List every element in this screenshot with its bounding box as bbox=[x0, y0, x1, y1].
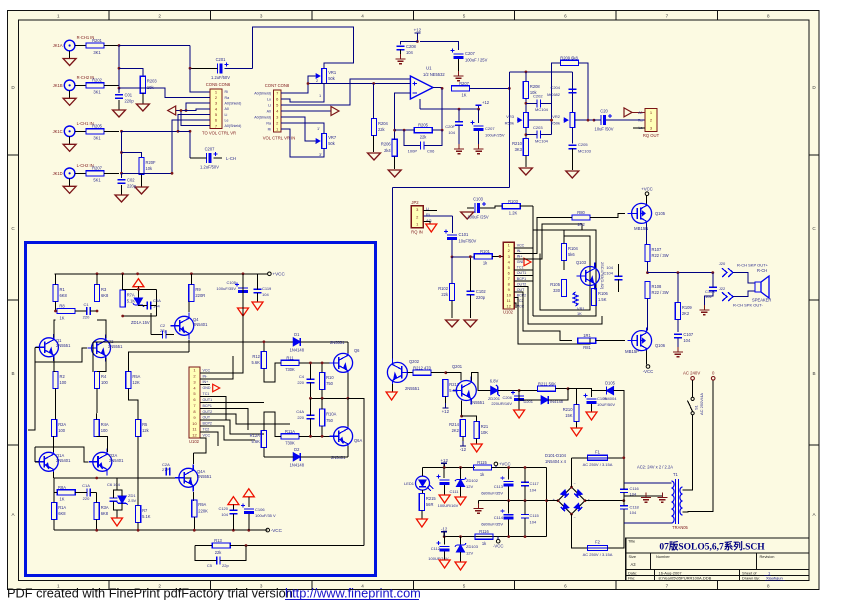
resistor R207b bbox=[451, 81, 469, 98]
svg-text:07版SOLO5,6,7系列.SCH: 07版SOLO5,6,7系列.SCH bbox=[659, 540, 765, 552]
svg-text:1/2 NE5532: 1/2 NE5532 bbox=[423, 72, 445, 77]
svg-text:-12: -12 bbox=[460, 447, 467, 452]
wire +12 to C207b bbox=[420, 42, 459, 51]
wire C112 top bbox=[444, 537, 446, 545]
svg-text:104: 104 bbox=[221, 512, 228, 517]
junction bb rail a bbox=[96, 272, 99, 275]
capacitor C4 bbox=[307, 379, 315, 382]
wire R203 ground bbox=[142, 93, 144, 104]
wire CON5 pin2 bbox=[119, 88, 210, 98]
wire R10 top bbox=[321, 363, 323, 373]
junction R205 left bbox=[403, 129, 406, 132]
wire C111 bot bbox=[444, 485, 446, 495]
svg-text:10UF/50V: 10UF/50V bbox=[597, 402, 615, 407]
wire JK1C stub bbox=[75, 130, 86, 132]
svg-text:Sheet of: Sheet of bbox=[742, 570, 757, 575]
svg-text:2N5551: 2N5551 bbox=[405, 386, 420, 391]
svg-text:100: 100 bbox=[58, 428, 66, 433]
wire R101 left bbox=[452, 256, 474, 258]
junction bbot e bbox=[247, 529, 250, 532]
vcc arrow C120 bbox=[228, 497, 239, 505]
wire C20 right bbox=[606, 119, 645, 121]
junction ZD201 node bbox=[518, 389, 521, 392]
svg-text:L-CH: L-CH bbox=[226, 156, 236, 161]
wire D1 right bbox=[300, 341, 348, 343]
capacitor C4A bbox=[307, 415, 315, 418]
wire R4-R4A bbox=[96, 389, 98, 420]
svg-text:BCP1: BCP1 bbox=[203, 404, 212, 408]
IC U102 bbox=[503, 242, 526, 314]
resistor R109 bbox=[675, 303, 692, 320]
svg-text:R207: R207 bbox=[92, 166, 103, 171]
svg-text:Ri: Ri bbox=[225, 90, 229, 94]
svg-text:10uF/50V: 10uF/50V bbox=[459, 239, 477, 244]
wire bridge bottom bbox=[572, 514, 588, 548]
svg-text:C02: C02 bbox=[127, 178, 135, 183]
resistor R13 bbox=[212, 538, 230, 555]
resistor R3 bbox=[94, 285, 109, 302]
svg-text:Q202: Q202 bbox=[409, 359, 420, 364]
resistor R12A bbox=[250, 431, 267, 448]
svg-text:A0(Shield): A0(Shield) bbox=[254, 91, 271, 95]
svg-text:R101: R101 bbox=[480, 249, 491, 254]
junction zd top bbox=[137, 288, 140, 291]
svg-text:10k: 10k bbox=[146, 166, 154, 171]
wire Q2 em bbox=[97, 358, 106, 371]
wire into pin1 bbox=[190, 68, 210, 92]
wire JP2in pin3 bbox=[423, 222, 430, 225]
label C2 27p bbox=[160, 323, 167, 333]
svg-text:VR2: VR2 bbox=[552, 114, 561, 119]
wire CON7 A0 right bbox=[281, 110, 331, 112]
svg-text:OUT: OUT bbox=[517, 288, 525, 292]
wire to Q201 bbox=[446, 373, 461, 381]
capacitor C1A bbox=[87, 488, 90, 496]
wire R101 right bbox=[492, 255, 503, 257]
labels C113 bbox=[481, 484, 504, 496]
wire U101 pin11 bbox=[200, 432, 218, 446]
label AC2 24V bbox=[637, 465, 673, 470]
blue box outline bbox=[26, 243, 376, 576]
svg-text:C6A: C6A bbox=[153, 298, 161, 303]
svg-text:2: 2 bbox=[316, 78, 318, 83]
wire R7A top bbox=[122, 274, 124, 290]
transistor Q1A bbox=[35, 448, 71, 475]
junction bb rail b bbox=[121, 272, 124, 275]
svg-text:D105: D105 bbox=[605, 381, 616, 386]
wire sec vertical c bbox=[623, 509, 625, 523]
capacitor C117 bbox=[521, 482, 529, 485]
net arrow RQOUT bbox=[624, 108, 632, 117]
wire AC to S1 bbox=[692, 380, 694, 397]
svg-text:22k: 22k bbox=[420, 134, 428, 139]
svg-text:5.1K: 5.1K bbox=[142, 514, 151, 519]
connector CON5 CON6 bbox=[202, 82, 241, 136]
wire feed to C101 bbox=[451, 216, 453, 233]
labels C117 bbox=[530, 481, 540, 493]
pot VR1 terminal labels bbox=[316, 78, 321, 98]
svg-text:R4A: R4A bbox=[101, 422, 109, 427]
svg-text:R9A: R9A bbox=[198, 502, 206, 507]
svg-text:http://www.fineprint.com: http://www.fineprint.com bbox=[285, 585, 421, 600]
svg-text:C5: C5 bbox=[207, 563, 213, 568]
wire C102 gnd bbox=[469, 295, 471, 318]
resistor R211 bbox=[538, 381, 557, 391]
wire D2 left bbox=[264, 456, 293, 458]
speaker symbol bbox=[752, 268, 771, 303]
svg-text:R20F: R20F bbox=[146, 160, 157, 165]
svg-text:R50k: R50k bbox=[505, 121, 514, 126]
svg-text:50k: 50k bbox=[328, 141, 336, 146]
svg-text:C205: C205 bbox=[578, 142, 588, 147]
svg-text:J20: J20 bbox=[719, 261, 726, 266]
junction sec mid bbox=[622, 499, 625, 502]
wire C120 bot bbox=[232, 514, 234, 530]
junction R209 right bbox=[587, 119, 590, 122]
svg-text:Xiaofujun: Xiaofujun bbox=[766, 576, 783, 581]
wire C104 bot lead bbox=[618, 280, 620, 292]
svg-text:IN-: IN- bbox=[517, 249, 523, 253]
capacitor C118 bbox=[620, 506, 628, 509]
svg-text:Q6A: Q6A bbox=[354, 438, 362, 443]
svg-text:R105: R105 bbox=[550, 282, 561, 287]
wire C114 bot bbox=[508, 520, 510, 537]
wire C106 bot bbox=[248, 514, 250, 530]
ground below C102 bbox=[464, 320, 477, 327]
svg-text:R207: R207 bbox=[459, 81, 470, 86]
wire C1A right bbox=[90, 491, 96, 493]
wire R7 top bbox=[137, 437, 139, 506]
wire Q2A base bbox=[35, 447, 88, 462]
capacitor C111 bbox=[437, 475, 450, 486]
svg-text:104: 104 bbox=[153, 304, 160, 309]
connector J22 arrows bbox=[719, 286, 733, 301]
svg-text:1': 1' bbox=[317, 126, 320, 131]
capacitor C2A bbox=[166, 467, 169, 475]
resistor R1A bbox=[52, 503, 67, 520]
svg-text:12: 12 bbox=[506, 304, 511, 309]
svg-text:+VCC: +VCC bbox=[272, 272, 285, 277]
junction bbot c bbox=[193, 529, 196, 532]
wire L-CH1 right bbox=[122, 130, 191, 132]
resistor R9A bbox=[192, 500, 208, 517]
junction Q201 em bbox=[460, 415, 463, 418]
wire node to R211 bbox=[519, 390, 538, 392]
capacitor C115 bbox=[521, 515, 529, 518]
wire R109 top bbox=[677, 273, 679, 303]
svg-text:220p: 220p bbox=[476, 295, 486, 300]
wire C207b down bbox=[458, 59, 460, 74]
junction C20 left bbox=[593, 119, 596, 122]
wire drive loop K bbox=[514, 303, 516, 308]
svg-text:1R1: 1R1 bbox=[583, 333, 591, 338]
wire -12 stem bbox=[443, 532, 445, 537]
svg-text:VCC: VCC bbox=[203, 368, 211, 372]
wire U101 pin10 bbox=[200, 426, 255, 440]
svg-text:6K8: 6K8 bbox=[101, 511, 109, 516]
svg-text:R203: R203 bbox=[147, 79, 158, 84]
wire R103 right bbox=[520, 205, 533, 207]
wire C101 down bbox=[451, 240, 453, 257]
wire C202cap lead bbox=[121, 173, 123, 178]
wire R9 top bbox=[190, 274, 192, 285]
capacitor C20F bbox=[455, 122, 463, 125]
earth ground C207c bbox=[474, 144, 484, 154]
junction bot -12 bbox=[443, 535, 446, 538]
power port -12 R214 bbox=[460, 441, 467, 452]
svg-text:R106: R106 bbox=[598, 291, 609, 296]
resistor R8A bbox=[57, 485, 75, 502]
svg-text:D1: D1 bbox=[294, 332, 300, 337]
labels C112 bbox=[428, 546, 449, 561]
svg-text:MC103: MC103 bbox=[578, 149, 592, 154]
wire ps bottom rail bbox=[444, 536, 546, 538]
wire C5 left bbox=[195, 546, 217, 561]
wire output to speaker bbox=[648, 272, 713, 274]
labels C115 bbox=[530, 513, 540, 525]
svg-text:7: 7 bbox=[666, 13, 669, 18]
capacitor C202in bbox=[118, 178, 137, 189]
wire R5A top bbox=[128, 352, 189, 372]
junction bridge R bbox=[584, 499, 587, 502]
svg-text:R107: R107 bbox=[652, 247, 663, 252]
junction bb rail c bbox=[136, 272, 139, 275]
svg-text:Q105: Q105 bbox=[655, 211, 666, 216]
svg-text:100P: 100P bbox=[408, 149, 418, 154]
wire mid row bbox=[311, 397, 348, 399]
junction C101 node bbox=[451, 256, 454, 259]
svg-text:ZD102: ZD102 bbox=[466, 478, 479, 483]
junction R208 top bbox=[525, 71, 528, 74]
transistor Q6 bbox=[330, 340, 361, 376]
wire R11 left bbox=[264, 363, 281, 382]
junction L-CH2 bbox=[120, 172, 123, 175]
wire CON5 pin5 bbox=[122, 114, 211, 131]
wire top rail bbox=[252, 27, 353, 69]
resistor R1 bbox=[53, 285, 68, 302]
wire C117 bot bbox=[524, 486, 526, 501]
svg-text:1.2uF/50V: 1.2uF/50V bbox=[200, 165, 219, 170]
wire +12 stem bbox=[416, 33, 418, 42]
power port +12 ps bbox=[440, 458, 448, 469]
svg-text:104: 104 bbox=[683, 338, 691, 343]
svg-text:JK1D: JK1D bbox=[53, 171, 63, 176]
svg-text:22k: 22k bbox=[215, 550, 223, 555]
svg-text:R13: R13 bbox=[214, 538, 222, 543]
transformer T1 bbox=[672, 472, 689, 530]
svg-text:R7: R7 bbox=[142, 508, 148, 513]
wire C1 right bbox=[90, 310, 97, 312]
junction R205 right bbox=[441, 129, 444, 132]
svg-text:F2: F2 bbox=[595, 539, 601, 544]
svg-text:R1A: R1A bbox=[58, 505, 66, 510]
svg-text:VCC: VCC bbox=[203, 433, 211, 437]
labels C206 bbox=[491, 395, 512, 406]
svg-text:2N5401: 2N5401 bbox=[56, 458, 71, 463]
wire base row Q6A bbox=[311, 435, 334, 437]
svg-text:C119: C119 bbox=[262, 286, 272, 291]
wire VR7 bottom bbox=[281, 129, 324, 157]
wire drive loop A bbox=[514, 206, 533, 248]
svg-text:C207: C207 bbox=[465, 51, 476, 56]
resistor R4 bbox=[94, 372, 108, 389]
wire drive loop H bbox=[514, 287, 602, 325]
labels C111 bbox=[438, 489, 460, 508]
svg-text:CON5 CON6: CON5 CON6 bbox=[206, 82, 231, 87]
wire Q4A em bbox=[192, 492, 194, 501]
vcc arrow C106 bbox=[243, 489, 254, 497]
junction spk tap bbox=[677, 271, 680, 274]
svg-text:C105: C105 bbox=[226, 280, 236, 285]
svg-text:R9: R9 bbox=[195, 287, 201, 292]
svg-text:10K: 10K bbox=[481, 430, 489, 435]
ground arrow R210p bbox=[571, 428, 582, 436]
power port +12 opamp supply bbox=[420, 99, 490, 109]
labels C106 bbox=[255, 507, 276, 518]
wire trans sec bot bbox=[683, 380, 714, 512]
wire R210p top bbox=[568, 389, 577, 405]
svg-text:PDF created with FinePrint pdf: PDF created with FinePrint pdfFactory tr… bbox=[7, 585, 293, 600]
wire R7 bot bbox=[137, 523, 139, 531]
svg-text:1.2uF/50V: 1.2uF/50V bbox=[211, 75, 230, 80]
capacitor C205t bbox=[568, 145, 576, 148]
labels VR3 bbox=[505, 114, 515, 126]
diode D2 bbox=[290, 447, 305, 468]
svg-text:R2: R2 bbox=[60, 374, 66, 379]
capacitor C207 1.2uF bbox=[200, 147, 219, 170]
svg-text:R-CH SPK OUT-: R-CH SPK OUT- bbox=[733, 303, 763, 308]
wire R202 right bbox=[104, 84, 119, 86]
wire C105 top bbox=[242, 274, 244, 286]
wire R213 bot bbox=[444, 397, 446, 404]
wire opamp out bbox=[433, 87, 442, 90]
resistor R202 bbox=[86, 78, 104, 95]
svg-text:JK1B: JK1B bbox=[53, 83, 63, 88]
wire R12A bot bbox=[263, 448, 265, 457]
junction base row b bbox=[321, 362, 324, 365]
ground arrow C119 bbox=[252, 302, 263, 310]
svg-text:2N5551: 2N5551 bbox=[56, 343, 71, 348]
wire R209 left vert bbox=[552, 63, 561, 135]
wire U101 pin5 bbox=[200, 397, 226, 421]
svg-text:104: 104 bbox=[262, 292, 269, 297]
wire C103 to R103 bbox=[480, 206, 502, 208]
wire bridge right bbox=[585, 500, 624, 502]
svg-text:Number: Number bbox=[656, 554, 671, 559]
svg-text:R201: R201 bbox=[92, 38, 103, 43]
svg-text:2SC4793(D-82): 2SC4793(D-82) bbox=[600, 262, 605, 290]
resistor R212 bbox=[413, 365, 432, 375]
svg-text:A3: A3 bbox=[631, 562, 637, 567]
junction C1 right bbox=[96, 310, 99, 313]
resistor R215 bbox=[419, 494, 436, 511]
transistor Q4 bbox=[171, 312, 208, 339]
svg-text:C4A: C4A bbox=[296, 409, 304, 414]
wire VR3 bot bbox=[525, 128, 527, 139]
svg-text:1K: 1K bbox=[59, 497, 64, 502]
svg-text:100uF /25V: 100uF /25V bbox=[467, 214, 488, 219]
connector J20 arrows bbox=[719, 261, 733, 277]
resistor R21x bbox=[474, 422, 489, 439]
svg-text:R5: R5 bbox=[142, 422, 148, 427]
wire C119 gnd bbox=[257, 293, 259, 302]
wire drive loop F bbox=[514, 275, 533, 277]
svg-text:220R: 220R bbox=[195, 293, 205, 298]
wire JK1A stub bbox=[75, 45, 86, 47]
wire JK1D stub bbox=[75, 172, 86, 174]
wire C20 left bbox=[594, 119, 601, 121]
svg-text:-VCC: -VCC bbox=[493, 543, 504, 548]
wire R8 left bbox=[56, 302, 58, 312]
svg-text:12V: 12V bbox=[466, 551, 473, 556]
svg-text:C203: C203 bbox=[533, 125, 543, 130]
junction mid row b bbox=[321, 397, 324, 400]
svg-text:IN-: IN- bbox=[203, 374, 209, 378]
wire C4 bot bbox=[310, 383, 312, 399]
resistor R208 bbox=[523, 82, 540, 99]
power port -VCC Q106 bbox=[646, 365, 650, 369]
svg-text:1: 1 bbox=[57, 13, 60, 18]
label C4 220 bbox=[297, 374, 304, 385]
svg-text:Date:: Date: bbox=[628, 570, 637, 575]
wire R208 top bbox=[525, 72, 527, 81]
ground below JK1D bbox=[63, 186, 76, 193]
svg-text:1: 1 bbox=[319, 93, 321, 98]
labels C120 bbox=[218, 506, 228, 517]
wire D2 right bbox=[300, 456, 348, 458]
junction rail ZD102 bbox=[459, 466, 462, 469]
wire R201 right bbox=[104, 45, 119, 47]
transistor Q103 bbox=[577, 263, 600, 290]
junction R12 top bbox=[263, 340, 266, 343]
wire R214 bot bbox=[462, 437, 464, 443]
wire C202t left bbox=[526, 102, 537, 104]
wire F2 right bbox=[608, 523, 624, 548]
svg-text:C118: C118 bbox=[630, 505, 640, 510]
wire R2-R2A bbox=[55, 389, 57, 420]
wire jack1 to drop bbox=[119, 45, 190, 47]
svg-text:LED1: LED1 bbox=[404, 481, 415, 486]
svg-text:D101-D104: D101-D104 bbox=[545, 453, 567, 458]
wire D201 right bbox=[548, 389, 568, 400]
wire R20F ground bbox=[141, 175, 143, 188]
svg-text:OUT2: OUT2 bbox=[203, 410, 213, 414]
capacitor C114 bbox=[501, 509, 514, 519]
junction bbot b bbox=[137, 529, 140, 532]
junction R-CH1 bbox=[118, 44, 121, 47]
junction V+ b bbox=[477, 108, 480, 111]
junction C102 top bbox=[469, 255, 472, 258]
svg-text:16-Aug-2007: 16-Aug-2007 bbox=[659, 570, 683, 575]
svg-text:C204: C204 bbox=[550, 85, 560, 90]
resistor R12 bbox=[251, 352, 266, 369]
label F1 rating bbox=[583, 462, 613, 467]
svg-text:Size: Size bbox=[629, 554, 637, 559]
wire ZD103 top bbox=[460, 537, 462, 545]
junction mid a bbox=[95, 477, 98, 480]
svg-text:A0(Shield): A0(Shield) bbox=[225, 124, 242, 128]
wire feed vertical to Q202 bbox=[391, 188, 393, 363]
svg-text:2K2: 2K2 bbox=[452, 428, 460, 433]
wire R-CH1 to C201 bbox=[119, 45, 190, 47]
svg-text:104: 104 bbox=[406, 50, 414, 55]
svg-text:ZD103: ZD103 bbox=[466, 544, 479, 549]
svg-text:AC 240V: AC 240V bbox=[683, 370, 700, 375]
wire ZD102 bot bbox=[460, 487, 462, 498]
labels ZD201 bbox=[488, 379, 501, 402]
diode D1 bbox=[290, 332, 305, 353]
transistor Q2 bbox=[88, 335, 124, 362]
